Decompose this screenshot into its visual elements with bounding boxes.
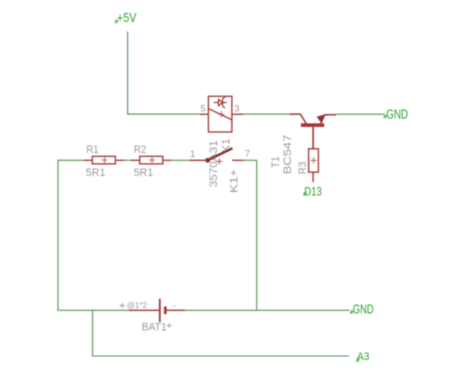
battery BAT1 right stub — [167, 309, 186, 311]
resistor R3 name label — [297, 162, 309, 175]
relay coil K1 body — [208, 96, 232, 132]
svg-text:R3: R3 — [297, 162, 309, 175]
svg-text:1: 1 — [190, 149, 195, 160]
transistor T1 emitter arrow — [317, 114, 326, 123]
svg-text:3570A31: 3570A31 — [208, 140, 220, 187]
relay switch K1 name origin cross — [231, 170, 236, 175]
resistor R1 right stub — [115, 159, 124, 161]
wire relay switch pin 7 down to GND rail — [244, 160, 257, 310]
resistor R2 left stub — [130, 159, 139, 161]
wire emitter to GND — [336, 113, 384, 115]
wire +5V horizontal to relay coil pin 5 — [127, 113, 199, 115]
relay coil K1 pin 5 stub — [199, 113, 208, 115]
svg-text:D13: D13 — [304, 184, 322, 198]
svg-text:GND: GND — [386, 107, 408, 121]
svg-text:K1: K1 — [229, 177, 241, 194]
svg-text:T1: T1 — [270, 156, 282, 168]
relay coil K1 value label 3570A31 — [208, 140, 220, 187]
wire R1 to R2 — [125, 159, 131, 161]
svg-text:5: 5 — [200, 104, 205, 115]
relay switch K1 common junction dot — [205, 158, 210, 163]
svg-text:R2: R2 — [134, 144, 146, 156]
wire left rail from R1 to bottom — [57, 160, 59, 311]
battery BAT1 left stub — [129, 309, 159, 311]
resistor R3 origin cross — [311, 157, 317, 163]
relay switch K1 origin cross — [216, 158, 222, 164]
wire R2 to relay switch pin 1 — [171, 159, 189, 161]
node GND origin cross (top) — [383, 115, 387, 119]
svg-text:5R1: 5R1 — [134, 167, 154, 179]
transistor T1 emitter lead — [321, 115, 336, 124]
svg-text:BAT1: BAT1 — [142, 321, 167, 333]
transistor T1 base lead to R3 — [312, 127, 314, 149]
transistor T1 base bar — [301, 123, 324, 127]
relay coil K1 origin cross — [218, 111, 224, 117]
relay coil K1 internal diode — [214, 97, 227, 108]
wire battery to GND label — [185, 309, 350, 311]
node A3 origin cross — [356, 358, 360, 362]
node D13 origin cross — [303, 192, 307, 196]
svg-text:5R1: 5R1 — [86, 167, 106, 179]
svg-text:A3: A3 — [357, 351, 369, 363]
relay switch K1 pin 7 stub — [232, 159, 244, 161]
wire left to R1 — [57, 159, 83, 161]
svg-text:R1: R1 — [86, 144, 98, 156]
wire bottom rail left segment to battery — [57, 309, 128, 311]
relay coil K1 name label — [221, 138, 233, 153]
resistor R2 body — [140, 156, 163, 164]
svg-text:7: 7 — [245, 149, 250, 160]
transistor T1 name label — [270, 156, 282, 168]
resistor R2 right stub — [163, 159, 172, 161]
relay switch K1 name label — [229, 177, 241, 194]
svg-text:BC547: BC547 — [282, 135, 294, 175]
battery BAT1 value origin cross — [120, 303, 125, 308]
node +5V origin cross — [115, 20, 119, 24]
svg-text:GND: GND — [353, 303, 374, 317]
resistor R1 body — [92, 156, 115, 164]
resistor R3 bottom stub — [312, 172, 314, 182]
node GND origin cross (bottom) — [350, 310, 354, 314]
node +5V supply label — [117, 10, 137, 25]
wire A3 branch — [92, 310, 349, 356]
wire +5V vertical drop — [127, 32, 129, 115]
svg-text:-: - — [173, 301, 176, 311]
resistor R3 body — [309, 149, 319, 172]
svg-text:@1*2: @1*2 — [127, 300, 148, 310]
resistor R1 left stub — [84, 159, 93, 161]
svg-text:+5V: +5V — [117, 10, 137, 25]
relay switch K1 arm — [208, 148, 233, 160]
relay switch K1 pin 1 stub — [189, 159, 207, 161]
battery BAT1 positive plate — [159, 299, 161, 322]
relay coil K1 pin 3 stub — [232, 113, 243, 115]
battery BAT1 name origin cross — [167, 323, 172, 328]
resistor R1 origin cross — [102, 157, 108, 163]
transistor T1 value label BC547 — [282, 135, 294, 175]
resistor R2 origin cross — [149, 157, 155, 163]
battery BAT1 negative plate — [164, 306, 167, 314]
svg-text:3: 3 — [234, 103, 239, 114]
transistor T1 collector lead — [290, 114, 307, 124]
wire coil pin3 to transistor collector — [243, 113, 289, 115]
